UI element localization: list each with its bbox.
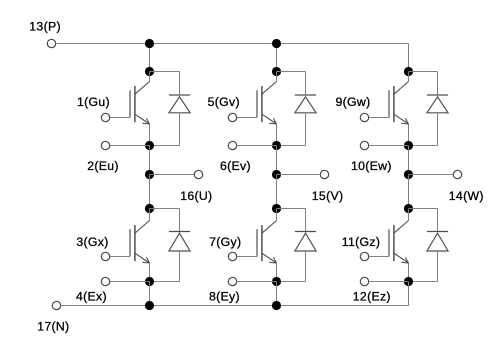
junction node W phase output xyxy=(404,170,413,179)
wire W lower collector drop xyxy=(408,175,410,209)
diode D1 free-wheel (anti-parallel, high side) xyxy=(150,71,180,73)
wire gate lead 1(Gu) xyxy=(110,117,130,119)
terminal pin 2(Eu) high-side emitter sense xyxy=(101,141,109,149)
junction V upper emitter node xyxy=(272,141,281,150)
terminal pin 3(Gx) low-side gate xyxy=(101,252,109,260)
svg-text:2(Eu): 2(Eu) xyxy=(87,159,119,173)
diode D2 free-wheel (anti-parallel, high side) xyxy=(277,71,306,73)
wire emitter sense lead 2(Eu) xyxy=(110,145,149,147)
wire U-leg collector drop from P rail xyxy=(149,44,151,72)
diode D4 free-wheel (anti-parallel, low side) xyxy=(150,208,180,210)
wire W upper collector segment xyxy=(408,72,410,82)
terminal pin 15(V) phase output xyxy=(320,170,328,178)
transistor Q3 IGBT high-side W phase xyxy=(388,90,390,117)
transistor Q1 IGBT high-side U phase xyxy=(129,90,131,117)
transistor Q4 IGBT low-side U phase xyxy=(129,229,131,256)
wire V midpoint segment xyxy=(276,146,278,175)
svg-text:16(U): 16(U) xyxy=(180,189,212,203)
terminal pin 10(Ew) high-side emitter sense xyxy=(360,141,368,149)
terminal pin 16(U) phase output xyxy=(194,170,202,178)
junction V lower collector / diode D5 cathode node xyxy=(272,204,281,213)
diode D6 free-wheel (anti-parallel, low side) xyxy=(409,208,438,210)
wire V-leg collector drop from P rail xyxy=(276,44,278,72)
svg-text:9(Gw): 9(Gw) xyxy=(336,95,371,109)
wire U lower collector drop xyxy=(149,175,151,209)
junction W lower collector / diode D6 cathode node xyxy=(404,204,413,213)
wire gate lead 7(Gy) xyxy=(237,256,257,258)
svg-text:13(P): 13(P) xyxy=(29,20,61,34)
wire W lower emitter segment xyxy=(408,263,410,282)
junction node U phase output xyxy=(145,170,154,179)
svg-text:6(Ev): 6(Ev) xyxy=(220,159,251,173)
transistor Q6 IGBT low-side W phase xyxy=(388,229,390,256)
wire phase output lead 14(W) xyxy=(409,174,453,176)
terminal pin 7(Gy) low-side gate xyxy=(228,252,236,260)
wire gate lead 11(Gz) xyxy=(369,256,389,258)
wire W midpoint segment xyxy=(408,146,410,175)
diode D3 free-wheel (anti-parallel, high side) xyxy=(409,71,438,73)
wire U upper collector segment xyxy=(149,72,151,82)
junction W upper collector / diode D3 cathode node xyxy=(404,67,413,76)
wire emitter sense lead 6(Ev) xyxy=(237,145,276,147)
junction V lower emitter node xyxy=(272,277,281,286)
svg-text:12(Ez): 12(Ez) xyxy=(353,289,391,303)
svg-text:15(V): 15(V) xyxy=(312,189,344,203)
svg-text:3(Gx): 3(Gx) xyxy=(76,235,108,249)
svg-text:11(Gz): 11(Gz) xyxy=(342,235,380,249)
wire top P bus rail xyxy=(56,43,408,45)
wire phase output lead 16(U) xyxy=(150,174,194,176)
wire V lower collector segment xyxy=(276,209,278,221)
wire phase output lead 15(V) xyxy=(277,174,320,176)
wire W upper emitter segment xyxy=(408,124,410,146)
wire V lower emitter segment xyxy=(276,263,278,282)
terminal pin 6(Ev) high-side emitter sense xyxy=(228,141,236,149)
svg-text:1(Gu): 1(Gu) xyxy=(77,95,110,109)
junction U leg on N rail xyxy=(145,301,154,310)
wire V upper collector segment xyxy=(276,72,278,82)
svg-text:17(N): 17(N) xyxy=(37,319,69,333)
transistor Q5 IGBT low-side V phase xyxy=(256,229,258,256)
terminal pin 12(Ez) low-side emitter sense xyxy=(360,277,368,285)
wire W-leg collector drop from P rail xyxy=(408,44,410,72)
junction U upper collector / diode D1 cathode node xyxy=(145,67,154,76)
junction W upper emitter node xyxy=(404,141,413,150)
junction U lower emitter node xyxy=(145,277,154,286)
wire gate lead 5(Gv) xyxy=(237,117,257,119)
diode D5 free-wheel (anti-parallel, low side) xyxy=(277,208,306,210)
junction U leg on P rail xyxy=(145,39,154,48)
junction V leg on N rail xyxy=(272,301,281,310)
wire emitter sense lead 4(Ex) xyxy=(110,281,149,283)
junction U lower collector / diode D4 cathode node xyxy=(145,204,154,213)
terminal pin 1(Gu) high-side gate xyxy=(101,113,109,121)
junction V leg on P rail xyxy=(272,39,281,48)
wire emitter sense lead 12(Ez) xyxy=(369,281,408,283)
wire emitter sense lead 10(Ew) xyxy=(369,145,408,147)
svg-text:8(Ey): 8(Ey) xyxy=(209,289,240,303)
wire U lower emitter segment xyxy=(149,263,151,282)
wire W lower collector segment xyxy=(408,209,410,221)
wire U leg drop to N rail xyxy=(149,282,151,306)
junction node V phase output xyxy=(272,170,281,179)
wire bottom N bus rail xyxy=(61,305,408,307)
svg-text:4(Ex): 4(Ex) xyxy=(76,289,107,303)
terminal pin 9(Gw) high-side gate xyxy=(360,113,368,121)
terminal pin 4(Ex) low-side emitter sense xyxy=(101,277,109,285)
wire V leg drop to N rail xyxy=(276,282,278,306)
wire gate lead 9(Gw) xyxy=(369,117,389,119)
wire V upper emitter segment xyxy=(276,124,278,146)
terminal pin 13(P) positive DC bus terminal xyxy=(47,39,55,47)
wire W leg drop to N rail xyxy=(408,282,410,306)
terminal pin 5(Gv) high-side gate xyxy=(228,113,236,121)
wire emitter sense lead 8(Ey) xyxy=(237,281,276,283)
transistor Q2 IGBT high-side V phase xyxy=(256,90,258,117)
wire gate lead 3(Gx) xyxy=(110,256,130,258)
svg-text:14(W): 14(W) xyxy=(449,189,484,203)
wire V lower collector drop xyxy=(276,175,278,209)
wire U midpoint segment xyxy=(149,146,151,175)
junction W lower emitter node xyxy=(404,277,413,286)
terminal pin 17(N) negative DC bus terminal xyxy=(52,301,60,309)
svg-text:10(Ew): 10(Ew) xyxy=(351,159,392,173)
junction V upper collector / diode D2 cathode node xyxy=(272,67,281,76)
terminal pin 8(Ey) low-side emitter sense xyxy=(228,277,236,285)
svg-text:5(Gv): 5(Gv) xyxy=(208,95,240,109)
wire U lower collector segment xyxy=(149,209,151,221)
terminal pin 14(W) phase output xyxy=(453,170,461,178)
terminal pin 11(Gz) low-side gate xyxy=(360,252,368,260)
junction U upper emitter node xyxy=(145,141,154,150)
svg-text:7(Gy): 7(Gy) xyxy=(209,235,241,249)
wire U upper emitter segment xyxy=(149,124,151,146)
